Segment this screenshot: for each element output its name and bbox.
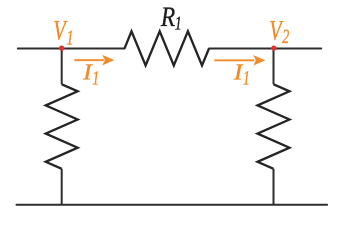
svg-text:2: 2	[282, 26, 289, 48]
resistor right shunt (vertical zigzag)	[258, 84, 290, 169]
svg-text:1: 1	[92, 68, 99, 90]
wire left vertical lead (top)	[61, 49, 63, 85]
node V2 (red junction dot)	[271, 46, 276, 51]
svg-text:1: 1	[243, 68, 250, 90]
node V1 (red junction dot)	[59, 46, 64, 51]
wire bottom horizontal	[17, 204, 328, 206]
wire right vertical lead (bottom)	[273, 169, 275, 205]
wire top-right horizontal	[209, 48, 321, 50]
current arrow I1 (right)	[214, 55, 265, 66]
resistor left shunt (vertical zigzag)	[46, 84, 78, 169]
svg-text:1: 1	[175, 13, 182, 34]
wire right vertical lead (top)	[273, 49, 275, 85]
wire left vertical lead (bottom)	[61, 169, 63, 205]
resistor R1 (series, horizontal zigzag)	[125, 31, 210, 65]
svg-text:1: 1	[66, 26, 73, 50]
wire top-left horizontal	[18, 48, 125, 50]
svg-text:R: R	[160, 2, 175, 33]
current arrow I1 (left)	[74, 55, 114, 66]
